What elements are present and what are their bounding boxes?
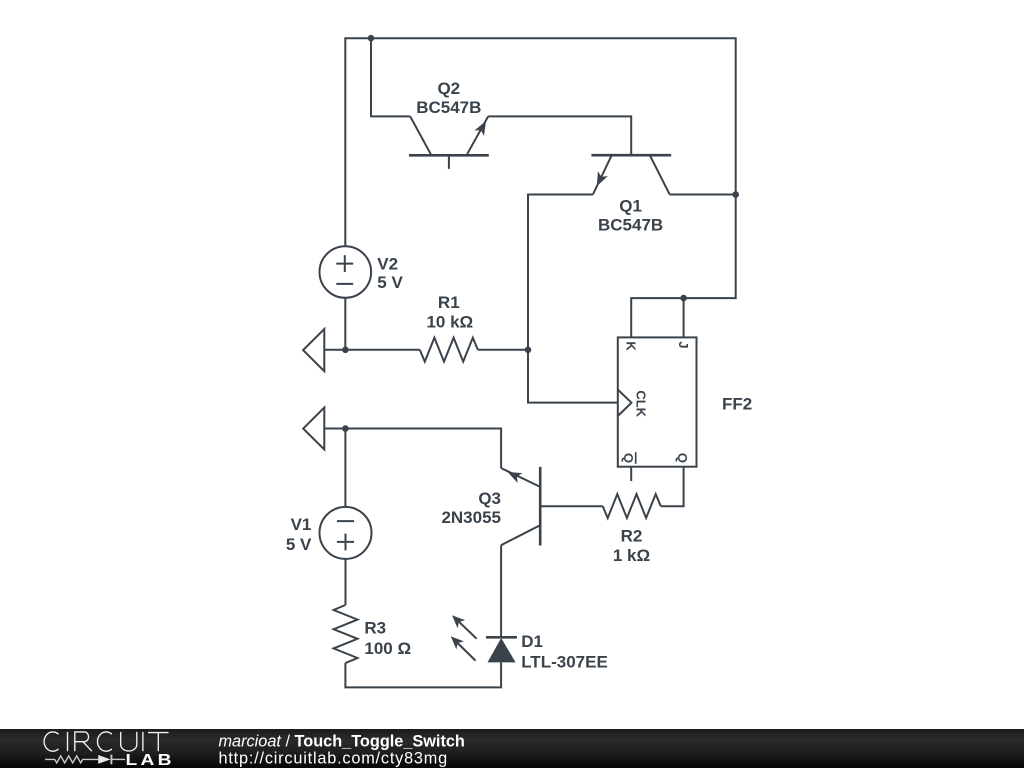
- wire Q2 emitter to Q1 base: [488, 116, 631, 155]
- resistor R3: [334, 605, 358, 663]
- ground GND2: [303, 408, 324, 450]
- wire R1 right to node: [478, 349, 528, 351]
- wire V1 bottom to R3: [345, 559, 347, 605]
- resistor R2: [603, 494, 661, 518]
- svg-text:5 V: 5 V: [377, 273, 403, 292]
- wire top rail: V2 plus up, across, down right side, left to FF2 K pin: [345, 38, 735, 337]
- svg-text:K: K: [624, 341, 639, 351]
- wire Q3 collector to LED: [500, 545, 502, 637]
- svg-text:LAB: LAB: [126, 751, 175, 768]
- pin stub Qbar: [630, 467, 632, 481]
- wire Q1 collector to right rail: [670, 194, 736, 196]
- node junction R1/CLK: [525, 347, 532, 354]
- node junction Q1 collector / right rail: [732, 191, 739, 198]
- node junction V2/ground: [342, 347, 349, 354]
- transistor Q2: [409, 116, 489, 168]
- svg-text:marcioat / Touch_Toggle_Switch: marcioat / Touch_Toggle_Switch: [219, 732, 465, 750]
- svg-text:LTL-307EE: LTL-307EE: [521, 652, 608, 671]
- svg-text:2N3055: 2N3055: [441, 508, 501, 527]
- transistor Q1: [591, 155, 671, 194]
- svg-text:R1: R1: [438, 293, 460, 312]
- LED D1: [451, 615, 517, 662]
- svg-text:1 kΩ: 1 kΩ: [613, 546, 650, 565]
- wire ground to Q3 emitter: [324, 429, 501, 469]
- wire R3 bottom to LED bottom: [345, 662, 501, 687]
- logo diode triangle: [98, 755, 110, 764]
- svg-text:BC547B: BC547B: [598, 216, 663, 235]
- wire R2 to Q3 base: [540, 505, 603, 507]
- logo CIRCUIT letters: [44, 732, 168, 751]
- svg-text:J: J: [676, 341, 691, 348]
- resistor R1: [420, 338, 478, 362]
- svg-text:CLK: CLK: [634, 390, 649, 417]
- svg-text:R2: R2: [621, 527, 643, 546]
- ground GND1: [303, 329, 324, 371]
- node junction J pin: [680, 295, 687, 302]
- voltage source V1: [320, 507, 372, 559]
- node junction top rail: [368, 35, 375, 42]
- wire from top rail down to Q2 collector: [371, 38, 410, 116]
- svg-text:FF2: FF2: [722, 394, 752, 413]
- transistor Q3: [501, 467, 540, 546]
- svg-text:Q: Q: [621, 453, 636, 463]
- flip-flop FF2 box: [618, 337, 697, 466]
- voltage source V2: [320, 246, 372, 298]
- svg-text:BC547B: BC547B: [416, 98, 481, 117]
- svg-text:D1: D1: [521, 632, 543, 651]
- svg-text:R3: R3: [364, 619, 386, 638]
- svg-text:Q: Q: [675, 453, 690, 463]
- svg-text:Q2: Q2: [437, 79, 460, 98]
- svg-text:http://circuitlab.com/cty83mg: http://circuitlab.com/cty83mg: [219, 750, 449, 768]
- wire ground node to R1: [324, 349, 420, 351]
- svg-text:5 V: 5 V: [286, 535, 312, 554]
- svg-text:Q3: Q3: [478, 489, 501, 508]
- svg-text:10 kΩ: 10 kΩ: [426, 313, 473, 332]
- wire V1 top: [344, 429, 346, 507]
- wire FF2 J pin stub: [683, 298, 685, 337]
- svg-text:100 Ω: 100 Ω: [364, 639, 411, 658]
- logo resistor-diode glyph: [45, 755, 125, 765]
- node junction V1 top: [342, 425, 349, 432]
- svg-text:Q1: Q1: [619, 197, 642, 216]
- wire V2 minus down to ground node: [344, 298, 346, 350]
- wire Q1 emitter left and down to R1 node and FF2 CLK: [528, 195, 618, 403]
- svg-text:V1: V1: [291, 515, 312, 534]
- svg-text:V2: V2: [377, 255, 398, 274]
- wire FF2 Q pin down to R2: [661, 467, 684, 507]
- footer bar: [0, 729, 1024, 768]
